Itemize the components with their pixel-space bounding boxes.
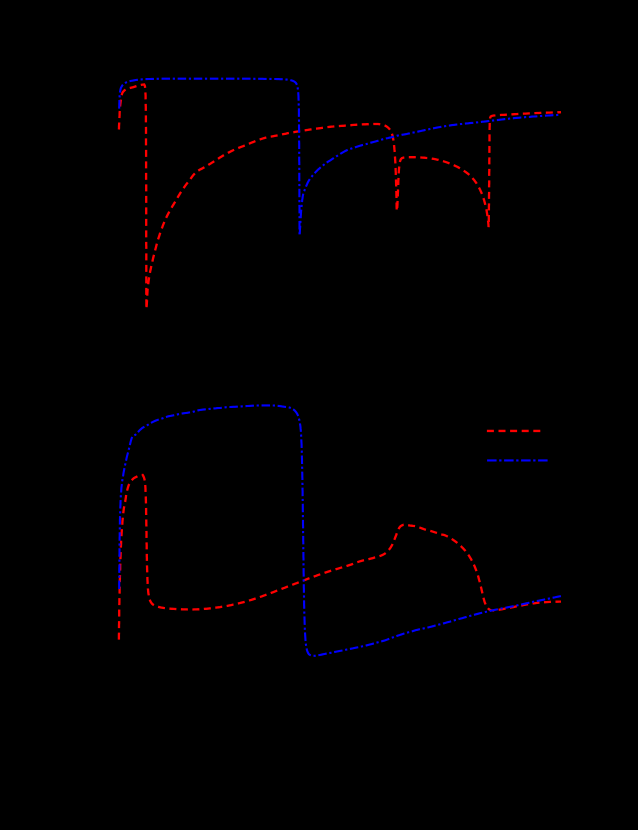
blue dash-dot curve, bottom subplot — [119, 405, 561, 655]
blue dash-dot curve, top subplot — [119, 79, 561, 236]
red dashed curve, bottom subplot — [119, 475, 561, 640]
red dashed curve, top subplot — [119, 85, 561, 310]
legend red dashed sample — [487, 430, 542, 432]
legend blue dash-dot sample — [487, 459, 548, 461]
